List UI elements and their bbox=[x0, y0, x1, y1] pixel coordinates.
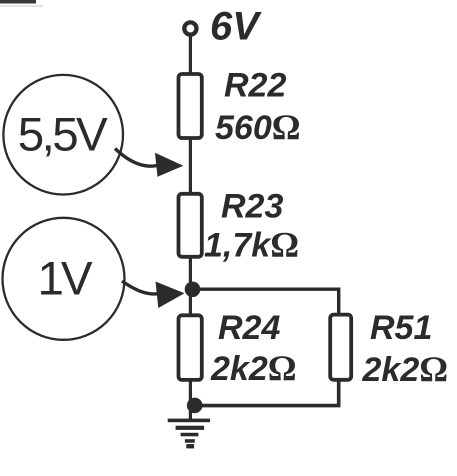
annotation circle 5,5V bbox=[3, 75, 123, 195]
node 6V terminal bbox=[184, 22, 196, 34]
wire R23 to R24 bbox=[189, 256, 192, 318]
ground bbox=[168, 419, 210, 449]
svg-text:1,7kΩ: 1,7kΩ bbox=[204, 225, 299, 265]
svg-text:R22: R22 bbox=[224, 66, 286, 104]
svg-text:R23: R23 bbox=[221, 187, 283, 225]
resistor R22 bbox=[179, 74, 202, 138]
svg-text:2k2Ω: 2k2Ω bbox=[210, 348, 297, 388]
svg-text:R24: R24 bbox=[218, 309, 280, 347]
arrow from 1V circle to node bbox=[122, 281, 157, 294]
cropped artifact top-left bbox=[0, 0, 36, 4]
svg-text:560Ω: 560Ω bbox=[215, 107, 301, 147]
resistor R23 bbox=[179, 194, 202, 257]
junction node between R23 and R24 bbox=[185, 282, 201, 298]
annotation circle 1V bbox=[3, 218, 125, 340]
junction node at ground bbox=[187, 398, 203, 414]
resistor R24 bbox=[179, 315, 202, 380]
resistor R51 bbox=[330, 315, 351, 380]
wire junction to R51 branch top bbox=[193, 289, 339, 316]
wire R22 to R23 bbox=[189, 137, 192, 195]
arrow from 5,5V circle to node bbox=[115, 149, 157, 167]
wire R51 branch bottom to ground node bbox=[196, 378, 339, 406]
svg-text:2k2Ω: 2k2Ω bbox=[362, 349, 449, 389]
svg-text:1V: 1V bbox=[38, 253, 93, 306]
svg-text:R51: R51 bbox=[370, 309, 432, 347]
svg-text:6V: 6V bbox=[210, 5, 262, 49]
wire terminal to R22 bbox=[189, 35, 192, 76]
svg-text:5,5V: 5,5V bbox=[18, 109, 108, 162]
wire R24 to ground node bbox=[189, 378, 192, 420]
